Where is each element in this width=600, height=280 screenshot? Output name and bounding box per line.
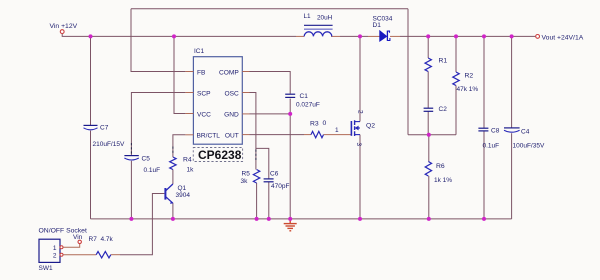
pin stub FB	[185, 71, 193, 73]
wire R1 top lead	[427, 36, 429, 58]
svg-text:2: 2	[357, 110, 364, 114]
svg-text:C1: C1	[300, 93, 309, 100]
svg-text:3k: 3k	[241, 178, 249, 185]
resistor R5	[253, 170, 259, 184]
wire Q2 source to ground rail	[359, 135, 361, 219]
svg-text:0.1uF: 0.1uF	[144, 167, 161, 174]
svg-text:0.1uF: 0.1uF	[483, 142, 500, 149]
svg-text:210uF/15V: 210uF/15V	[93, 141, 125, 148]
svg-text:C4: C4	[521, 129, 530, 136]
svg-text:OUT: OUT	[225, 133, 239, 140]
svg-text:2: 2	[53, 253, 57, 260]
svg-text:C5: C5	[142, 156, 151, 163]
wire FB left vertical	[131, 9, 185, 72]
svg-text:3904: 3904	[176, 192, 191, 199]
capacitor C5 electrolytic	[124, 156, 138, 160]
resistor R2	[453, 72, 459, 86]
connector SW1 pin2 circle	[60, 253, 63, 256]
dashed mark above R4	[172, 147, 174, 155]
wire Q1 emitter to ground rail	[172, 203, 174, 219]
svg-text:IC1: IC1	[194, 48, 205, 55]
wire BRCTL to R4	[173, 135, 186, 157]
svg-text:R4: R4	[183, 157, 192, 164]
resistor R7	[96, 252, 111, 258]
svg-text:BR/CTL: BR/CTL	[197, 133, 221, 140]
ground rail	[91, 218, 512, 220]
wire GND pin	[250, 113, 291, 115]
svg-text:Q1: Q1	[178, 185, 187, 192]
wire SW1 pin2 to R7	[63, 254, 96, 256]
wire R3 left lead	[304, 134, 311, 136]
wire COMP to C1	[250, 72, 291, 94]
svg-text:0: 0	[323, 120, 327, 127]
svg-text:Vin +12V: Vin +12V	[50, 23, 78, 30]
capacitor C6	[264, 179, 274, 182]
capacitor C1	[285, 94, 295, 97]
inductor L1	[304, 25, 333, 36]
wire C7 branch bottom	[90, 131, 92, 219]
svg-text:20uH: 20uH	[317, 15, 333, 22]
svg-text:CP6238: CP6238	[198, 148, 242, 162]
capacitor C7 electrolytic	[84, 125, 98, 129]
pin stub VCC	[185, 113, 193, 115]
wire C1 to GND node	[289, 99, 291, 114]
terminal Vin socket	[78, 240, 81, 243]
svg-text:SCP: SCP	[197, 90, 211, 97]
svg-text:VCC: VCC	[197, 111, 211, 118]
wire C4 to ground rail	[511, 133, 513, 219]
pin stub COMP	[242, 71, 249, 73]
svg-text:COMP: COMP	[219, 69, 239, 76]
svg-text:L1: L1	[304, 13, 312, 20]
capacitor C8	[478, 128, 488, 131]
svg-text:Q2: Q2	[366, 123, 375, 130]
wire OSC tap to C6	[256, 148, 269, 179]
capacitor C2	[424, 108, 434, 111]
wire VCC branch	[174, 36, 185, 113]
op-amp U1 IC1 CP6238 box	[193, 57, 242, 145]
svg-text:D1: D1	[373, 22, 382, 29]
wire R2 top lead	[455, 36, 457, 72]
wire L1 right lead	[331, 35, 340, 37]
wire feedback tap	[408, 134, 456, 136]
pin stub GND	[242, 113, 249, 115]
svg-text:R2: R2	[465, 73, 474, 80]
connector SW1 pin1 circle	[60, 246, 63, 249]
wire R3 to Q2 gate	[324, 134, 352, 136]
svg-text:100uF/35V: 100uF/35V	[513, 142, 545, 149]
wire C5 to ground rail	[130, 161, 132, 219]
svg-text:FB: FB	[197, 69, 206, 76]
resistor R3	[311, 131, 324, 137]
pin stub OUT	[242, 134, 249, 136]
wire R6 to ground rail	[428, 176, 430, 219]
svg-text:0.027uF: 0.027uF	[296, 102, 320, 109]
wire R6 top lead	[428, 135, 430, 162]
wire R5 to ground rail	[256, 183, 258, 219]
wire OUT to R3	[250, 134, 305, 136]
svg-text:1: 1	[53, 245, 57, 252]
svg-text:1: 1	[335, 127, 339, 134]
resistor R1	[425, 58, 431, 72]
svg-text:1k 1%: 1k 1%	[434, 177, 452, 184]
svg-text:47k 1%: 47k 1%	[457, 86, 479, 93]
wire R7 right lead	[111, 254, 120, 256]
wire SW1 pin1 to Vin socket terminal	[63, 244, 79, 247]
wire C2 to tap	[427, 111, 429, 134]
svg-text:SW1: SW1	[39, 265, 53, 272]
wire FB top right vertical	[407, 9, 409, 135]
wire Q2 drain	[359, 36, 361, 121]
svg-text:3: 3	[355, 143, 362, 147]
svg-text:C7: C7	[100, 125, 109, 132]
wire D1 anode lead	[368, 35, 380, 37]
ground	[284, 219, 297, 231]
resistor R4	[170, 157, 176, 170]
wire D1 cathode lead	[390, 35, 400, 37]
svg-text:OSC: OSC	[225, 90, 240, 97]
wire L1 to D1	[340, 35, 368, 37]
transistor Q1 npn 3904	[165, 184, 173, 204]
svg-text:R1: R1	[439, 58, 448, 65]
svg-text:GND: GND	[224, 111, 239, 118]
wire R2 to tap	[455, 86, 457, 135]
svg-text:C6: C6	[270, 170, 279, 177]
wire top feedback run	[131, 8, 408, 10]
wire C4 top lead	[511, 36, 513, 128]
resistor R6	[425, 162, 431, 177]
terminal Vout	[536, 35, 540, 39]
svg-text:R3: R3	[310, 121, 319, 128]
wire C8 top lead	[483, 36, 485, 128]
svg-text:R5: R5	[242, 171, 251, 178]
wire R7 to Q1 base	[120, 194, 164, 255]
node Vin rail	[62, 34, 296, 37]
pin stub OSC	[242, 92, 249, 94]
svg-text:R7: R7	[89, 236, 98, 243]
svg-text:470pF: 470pF	[271, 183, 289, 190]
svg-text:C2: C2	[439, 106, 448, 113]
wire R1 to C2	[427, 72, 429, 109]
wire C7 branch top	[90, 36, 92, 125]
terminal Vin +12V	[60, 30, 64, 34]
svg-text:1k: 1k	[187, 167, 195, 174]
wire GND node to ground rail	[289, 114, 291, 219]
wire D1 to Vout	[400, 35, 535, 37]
wire C8 to ground rail	[483, 131, 485, 219]
svg-text:R6: R6	[436, 163, 445, 170]
pin stub BRCTL	[185, 134, 193, 136]
dashed mark above C5	[130, 143, 132, 155]
wire SCP to C5	[131, 93, 185, 156]
dashed mark on OSC drop	[255, 150, 257, 161]
svg-text:4.7k: 4.7k	[101, 236, 114, 243]
svg-text:Vout +24V/1A: Vout +24V/1A	[542, 34, 584, 41]
diode D1 schottky	[380, 31, 390, 41]
svg-text:C8: C8	[491, 128, 500, 135]
capacitor C4 electrolytic	[504, 128, 520, 132]
wire OSC to R5	[250, 93, 256, 170]
pin stub SCP	[185, 92, 193, 94]
wire R4 to Q1 collector	[172, 170, 174, 185]
wire C6 to ground rail	[268, 182, 270, 219]
selection box around CP6238	[193, 148, 243, 162]
connector SW1 box	[39, 239, 60, 262]
wire L1 left lead	[296, 35, 304, 37]
svg-text:Vin: Vin	[73, 234, 83, 241]
transistor Q2 mosfet	[351, 120, 360, 136]
